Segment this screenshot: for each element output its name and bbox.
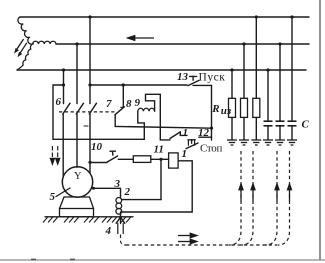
svg-text:из: из [221,105,232,117]
svg-text:11: 11 [154,144,164,156]
svg-text:4: 4 [105,225,112,237]
svg-text:3: 3 [114,178,121,190]
svg-text:Стоп: Стоп [200,143,222,155]
svg-text:R: R [211,103,219,115]
svg-text:10: 10 [91,141,103,153]
svg-text:7: 7 [106,98,112,110]
svg-text:13: 13 [177,71,189,83]
svg-text:6: 6 [56,96,62,108]
svg-text:12: 12 [198,127,210,139]
svg-text:1: 1 [183,127,189,139]
svg-text:2: 2 [124,186,131,198]
svg-text:5: 5 [50,191,56,203]
svg-text:1: 1 [182,148,188,160]
svg-text:Y: Y [74,171,82,182]
svg-text:9: 9 [135,97,141,109]
svg-text:Пуск: Пуск [199,72,226,84]
svg-text:C: C [302,119,310,131]
svg-text:8: 8 [126,98,132,110]
